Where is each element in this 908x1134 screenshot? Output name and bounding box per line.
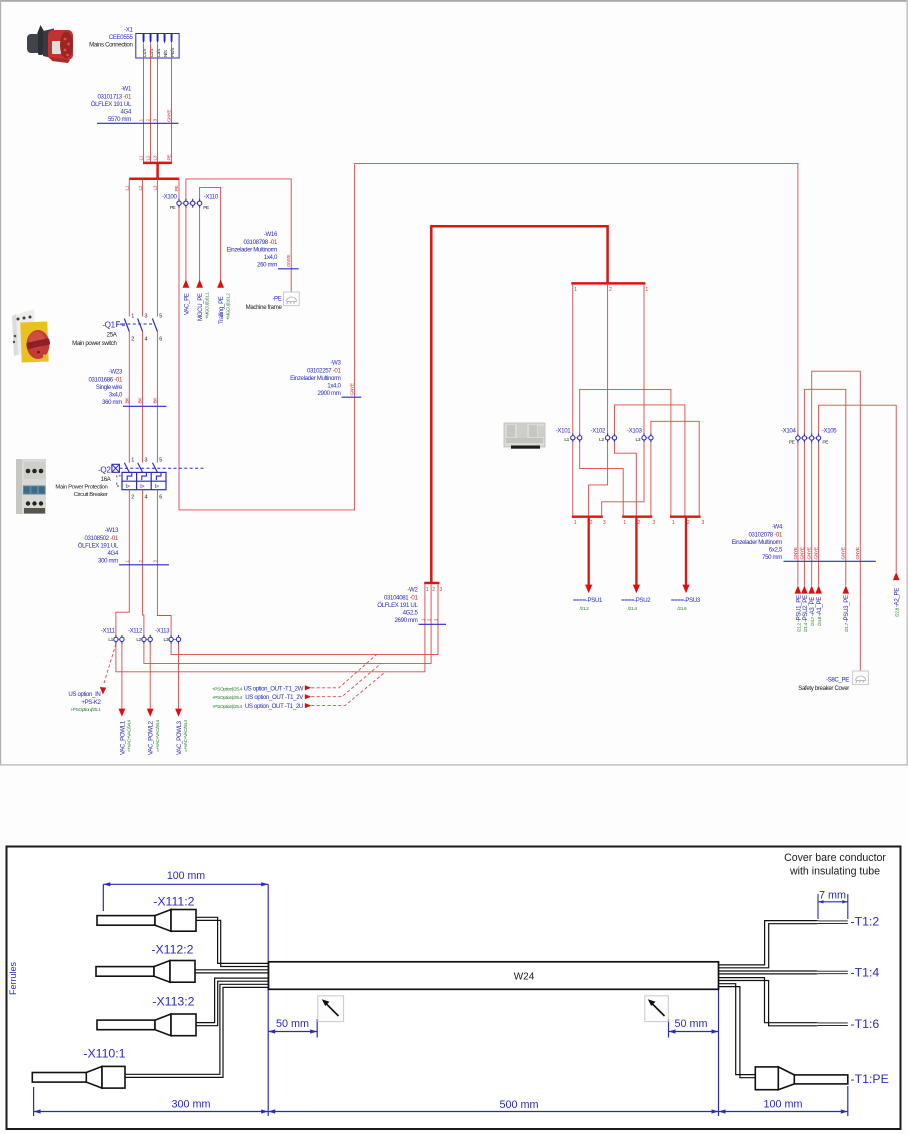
- svg-text:1: 1: [131, 314, 134, 320]
- svg-text:6x2,5: 6x2,5: [769, 547, 783, 554]
- svg-text:+PSOption|/25.1: +PSOption|/25.1: [70, 707, 101, 713]
- svg-text:+PSOption|/25.4: +PSOption|/25.4: [212, 704, 243, 710]
- extension line at cable left: [267, 884, 269, 1116]
- svg-text:5570 mm: 5570 mm: [108, 116, 131, 123]
- extension line at cable right: [718, 990, 720, 1117]
- svg-text:-X1: -X1: [124, 27, 133, 34]
- dimension 50 mm left: [268, 1019, 317, 1038]
- dimension 300 mm: [34, 1087, 269, 1116]
- arrow A3_PE: [808, 586, 816, 627]
- svg-text:/21.4: /21.4: [628, 606, 638, 612]
- svg-text:03104081 -01: 03104081 -01: [384, 595, 418, 602]
- svg-text:-T1:4: -T1:4: [851, 966, 880, 980]
- PSU1 pin numbers: [574, 520, 606, 526]
- cable W2 thick feed route: [431, 226, 607, 583]
- arrow to PSU1: [573, 517, 603, 612]
- dimension 100 mm right: [719, 1086, 848, 1116]
- svg-text:PE: PE: [166, 155, 172, 161]
- svg-text:4G4: 4G4: [108, 550, 119, 557]
- svg-text:3x4,0: 3x4,0: [109, 392, 123, 399]
- option OUT T1_2W dashed: [212, 655, 377, 693]
- wires Q1 to Q2: [129, 332, 157, 463]
- svg-text:+PSOption|/25.4: +PSOption|/25.4: [212, 686, 243, 692]
- PSU3 pin numbers: [672, 520, 705, 526]
- W2 pin numbers: [426, 587, 443, 593]
- wire X101 top to group3 pin1: [580, 389, 671, 516]
- svg-text:ÖLFLEX 191 UL: ÖLFLEX 191 UL: [91, 101, 132, 108]
- wire X101 right to group2 pin1: [580, 442, 624, 516]
- cable W13 label block: [78, 527, 169, 565]
- svg-text:50 mm: 50 mm: [276, 1018, 309, 1030]
- dimension 50 mm right: [669, 1019, 719, 1038]
- svg-text:US option_OUT -T1_2V: US option_OUT -T1_2V: [245, 694, 304, 701]
- bus drop wires: [573, 283, 644, 433]
- callout box right: [645, 996, 669, 1022]
- PSU2 pin numbers: [623, 520, 655, 526]
- dimension 100 mm top: [103, 884, 268, 911]
- svg-text:/21.6: /21.6: [677, 606, 687, 612]
- callout box left: [318, 996, 344, 1022]
- svg-text:500 mm: 500 mm: [499, 1099, 538, 1111]
- arrow VAC_POWL3: [175, 644, 188, 755]
- svg-text:Ferrules: Ferrules: [8, 961, 18, 995]
- arrow PSU1_PE: [795, 586, 803, 633]
- svg-text:=+VAC+VAC/94.4: =+VAC+VAC/94.4: [127, 720, 132, 752]
- svg-text:-X101: -X101: [556, 428, 572, 435]
- wire X113 to cable: [196, 978, 269, 1026]
- svg-text:-W1: -W1: [121, 86, 132, 93]
- svg-text:6: 6: [159, 337, 162, 343]
- svg-text:-X111: -X111: [101, 628, 116, 635]
- bottom drawing panel frame: [7, 847, 901, 1130]
- wire X110 to cable: [125, 984, 269, 1077]
- svg-text:03101686 -01: 03101686 -01: [88, 377, 122, 384]
- wire X111 to cable: [196, 917, 269, 966]
- cable W1 label block: [91, 86, 179, 161]
- junction bus bar 1: [143, 162, 172, 165]
- svg-text:50 mm: 50 mm: [675, 1018, 708, 1030]
- svg-text:====-PSU2: ====-PSU2: [621, 597, 651, 604]
- option IN dashed arrow: [68, 644, 116, 713]
- svg-text:03108798 -01: 03108798 -01: [243, 239, 277, 246]
- svg-text:Trailing_PE: Trailing_PE: [218, 296, 225, 324]
- svg-text:25A: 25A: [107, 332, 118, 339]
- svg-text:100 mm: 100 mm: [763, 1099, 802, 1111]
- svg-text:300 mm: 300 mm: [171, 1099, 210, 1111]
- svg-text:GNYE: GNYE: [799, 547, 805, 559]
- svg-text:GNYE: GNYE: [807, 547, 813, 559]
- page right edge: [906, 0, 908, 765]
- arrow VAC_POWL1: [119, 644, 132, 755]
- photo: distribution terminal blocks: [504, 423, 545, 449]
- option OUT T1_2U dashed: [212, 672, 386, 710]
- svg-text:-X113:2: -X113:2: [152, 995, 194, 1009]
- arrow Trailing_PE: [217, 280, 230, 325]
- terminal X103: [627, 428, 653, 443]
- svg-text:-W13: -W13: [105, 527, 119, 534]
- svg-text:03102078 -01: 03102078 -01: [748, 532, 782, 539]
- svg-text:3: 3: [145, 314, 148, 320]
- bare conductor T1:4: [817, 971, 848, 974]
- svg-text:-S8C_PE: -S8C_PE: [826, 677, 849, 684]
- cable W16 wire to machine frame: [186, 179, 291, 292]
- wire X102 left to group1 pin2: [589, 442, 608, 516]
- svg-text:-X110:1: -X110:1: [83, 1047, 125, 1061]
- wire MGCU PE: [199, 208, 201, 288]
- ferrule X113:2: [97, 1014, 196, 1036]
- svg-text:-PE: -PE: [272, 296, 281, 303]
- PE down wires: [798, 443, 819, 586]
- svg-text:2: 2: [131, 495, 134, 501]
- rail X112 to W2 pin2: [144, 584, 431, 663]
- wire X102 top to group3 pin2: [615, 405, 685, 517]
- svg-text:4G4: 4G4: [121, 109, 132, 116]
- bridge X104 to PSU3_PE: [804, 389, 845, 585]
- bridge X105 to A2_PE: [819, 405, 897, 572]
- svg-text:/21.7 -PSU3_PE: /21.7 -PSU3_PE: [843, 595, 850, 632]
- svg-text:L3: L3: [153, 155, 159, 160]
- terminal X101: [556, 428, 582, 443]
- W2 conductor marks: [420, 618, 438, 621]
- ferrule X112:2: [96, 961, 195, 983]
- arrow PSU2_PE: [801, 586, 809, 633]
- svg-text:7 mm: 7 mm: [819, 890, 846, 902]
- svg-text:-T1:2: -T1:2: [851, 915, 880, 929]
- photo: Q2 circuit breaker: [16, 459, 46, 514]
- svg-text:/24.8 -A1_PE: /24.8 -A1_PE: [816, 597, 823, 626]
- svg-text:-T1:6: -T1:6: [851, 1017, 880, 1031]
- svg-text:300 mm: 300 mm: [98, 558, 118, 565]
- svg-text:L1: L1: [564, 437, 569, 443]
- arrow VAC_POWL2: [147, 644, 160, 755]
- svg-text:4: 4: [145, 495, 148, 501]
- svg-text:03108502 -01: 03108502 -01: [84, 535, 118, 542]
- terminal row X104 / X105: [781, 428, 837, 446]
- bridge X104 to S8C ground: [812, 371, 861, 672]
- wire W3 PE long route: [179, 164, 798, 510]
- wire X103 top to group3 pin3: [651, 421, 699, 516]
- svg-text:Einzelader Multinorm: Einzelader Multinorm: [227, 247, 278, 254]
- svg-text:PE: PE: [822, 439, 828, 445]
- svg-text:4: 4: [145, 337, 148, 343]
- schematic panel bottom border: [0, 764, 908, 765]
- svg-text:GNYE: GNYE: [166, 110, 172, 122]
- svg-text:2900 mm: 2900 mm: [317, 390, 340, 397]
- ground S8C_PE safety breaker cover: [798, 671, 868, 692]
- svg-text:====-PSU3: ====-PSU3: [671, 597, 701, 604]
- svg-text:US option_IN: US option_IN: [68, 691, 100, 698]
- wire X110 trailing PE route: [200, 187, 221, 287]
- svg-text:-W4: -W4: [772, 524, 783, 531]
- wire PE drop to X100: [178, 179, 180, 199]
- svg-text:3: 3: [145, 458, 148, 464]
- svg-text:N/S: N/S: [163, 50, 168, 57]
- terminal X113: [155, 628, 181, 644]
- svg-text:I>: I>: [155, 484, 159, 490]
- option OUT T1_2V dashed: [212, 663, 381, 701]
- wire X103 left to group1 pin3: [602, 442, 644, 516]
- svg-text:+PS-K2: +PS-K2: [81, 699, 101, 706]
- svg-text:-Q1: -Q1: [102, 321, 115, 330]
- svg-text:L3/S: L3/S: [156, 49, 161, 57]
- ferrule X111:2: [97, 910, 196, 932]
- svg-text:US option_OUT -T1_2W: US option_OUT -T1_2W: [244, 685, 304, 692]
- wire X112 to cable: [195, 970, 269, 973]
- svg-text:-X110: -X110: [204, 194, 219, 201]
- wire to T1:6: [719, 978, 817, 1026]
- cable W16 label block: [227, 231, 299, 269]
- svg-text:VAC_PE: VAC_PE: [183, 293, 190, 315]
- arrow PSU3_PE: [843, 586, 851, 633]
- page left edge: [0, 0, 1, 765]
- svg-text:-X102: -X102: [591, 428, 607, 435]
- svg-text:GNYE: GNYE: [841, 547, 847, 559]
- svg-text:-X103: -X103: [627, 428, 643, 435]
- svg-text:I>: I>: [140, 484, 144, 490]
- svg-text:2: 2: [131, 337, 134, 343]
- svg-text:PE: PE: [203, 205, 209, 211]
- svg-text:750 mm: 750 mm: [762, 554, 782, 561]
- svg-text:-X112: -X112: [128, 628, 143, 635]
- svg-text:-X112:2: -X112:2: [151, 943, 193, 957]
- svg-text:16A: 16A: [101, 476, 112, 483]
- svg-text:Safety breaker Cover: Safety breaker Cover: [798, 685, 849, 692]
- svg-text:-X113: -X113: [155, 628, 170, 635]
- svg-text:100 mm: 100 mm: [167, 870, 205, 882]
- svg-text:-W2: -W2: [407, 587, 418, 594]
- svg-text:GNYE: GNYE: [855, 547, 861, 559]
- wire X103 right to group2 pin3: [650, 442, 652, 516]
- svg-text:L2: L2: [146, 155, 152, 160]
- svg-text:/21.2: /21.2: [580, 606, 590, 612]
- svg-text:GNYE: GNYE: [350, 383, 356, 395]
- bus bar 2 phase marks: [125, 185, 181, 191]
- svg-text:====-PSU1: ====-PSU1: [573, 597, 603, 604]
- svg-text:03101713 -01: 03101713 -01: [97, 94, 131, 101]
- svg-text:03102257 -01: 03102257 -01: [307, 368, 341, 375]
- svg-text:ÖLFLEX 191 UL: ÖLFLEX 191 UL: [377, 602, 418, 609]
- svg-text:Main Power Protection: Main Power Protection: [55, 485, 107, 491]
- W2 pin bar: [424, 582, 439, 585]
- svg-text:CEE0555: CEE0555: [109, 34, 134, 41]
- rail X111 to W2 pin1: [116, 584, 425, 671]
- PSU1 pin bar: [572, 516, 603, 518]
- svg-text:-W23: -W23: [109, 369, 123, 376]
- svg-text:/21.4 -PSU2_PE: /21.4 -PSU2_PE: [802, 595, 809, 632]
- svg-text:5: 5: [159, 314, 162, 320]
- PSU2 pin bar: [622, 516, 652, 518]
- arrow A1_PE: [815, 586, 823, 627]
- svg-text:-T1:PE: -T1:PE: [851, 1072, 889, 1086]
- svg-text:-X100: -X100: [162, 194, 178, 201]
- bare conductor T1:6: [817, 1023, 848, 1026]
- svg-text:1x4,0: 1x4,0: [264, 254, 278, 261]
- svg-text:L2: L2: [599, 437, 604, 443]
- svg-text:I>: I>: [126, 484, 130, 490]
- svg-text:260 mm: 260 mm: [257, 262, 277, 269]
- svg-text:1: 1: [131, 458, 134, 464]
- wire X101 pin1 down: [572, 442, 574, 516]
- svg-text:1x4,0: 1x4,0: [327, 383, 341, 390]
- svg-text:L3: L3: [164, 637, 169, 643]
- junction bus bar 2: [129, 178, 179, 181]
- svg-text:Single wire: Single wire: [96, 384, 123, 391]
- svg-text:VAC_POWL2: VAC_POWL2: [148, 720, 155, 755]
- svg-text:/22.8 -A2_PE: /22.8 -A2_PE: [894, 588, 901, 617]
- breaker Q2 symbol: [55, 458, 205, 501]
- connector X1 CEE0555: [89, 27, 179, 59]
- ferrule X110:1: [32, 1066, 125, 1088]
- wire to T1:4: [719, 971, 817, 974]
- svg-text:L2: L2: [136, 637, 141, 643]
- svg-text:W24: W24: [514, 972, 535, 983]
- svg-text:L1: L1: [139, 155, 145, 160]
- svg-text:Cover bare conductor: Cover bare conductor: [784, 852, 886, 864]
- svg-text:ÖLFLEX 191 UL: ÖLFLEX 191 UL: [78, 543, 119, 550]
- svg-text:VAC_POWL1: VAC_POWL1: [119, 720, 126, 755]
- PSU feeder bus bar: [571, 282, 645, 285]
- svg-text:GNYE: GNYE: [793, 547, 799, 559]
- cable W1 wires L1 L2 L3 PE: [144, 44, 172, 162]
- svg-text:Machine frame: Machine frame: [246, 304, 283, 311]
- arrow A2_PE: [893, 572, 901, 617]
- bus drop conductor labels: [574, 287, 648, 293]
- svg-text:-X104: -X104: [781, 428, 797, 435]
- bare conductor T1:2: [817, 921, 848, 924]
- svg-text:360 mm: 360 mm: [102, 399, 122, 406]
- terminal X111: [101, 628, 124, 644]
- wires bus to Q1: [129, 179, 157, 317]
- photo: Q1 main switch: [12, 309, 50, 362]
- svg-text:5: 5: [159, 458, 162, 464]
- rail X113 to W2 pin3: [171, 584, 438, 654]
- terminal X112: [128, 628, 152, 644]
- page top edge: [0, 0, 908, 2]
- photo: CEE mains plug: [27, 25, 73, 63]
- switch Q1 symbol: [72, 314, 162, 348]
- cable W24 body: [269, 962, 719, 990]
- svg-text:+PSOption|/25.4: +PSOption|/25.4: [212, 695, 243, 701]
- svg-text:PE: PE: [170, 205, 176, 211]
- svg-text:Circuit Breaker: Circuit Breaker: [74, 492, 108, 498]
- svg-text:-X105: -X105: [822, 428, 838, 435]
- svg-text:VAC_POWL3: VAC_POWL3: [176, 720, 183, 755]
- wire to T1:PE: [719, 984, 756, 1078]
- terminal X102: [591, 428, 617, 443]
- dimension 7 mm: [818, 894, 848, 919]
- svg-text:MGCU_PE: MGCU_PE: [197, 293, 204, 321]
- svg-text:GNYE: GNYE: [814, 547, 820, 559]
- svg-text:=+VAC+VAC/94.4: =+VAC+VAC/94.4: [155, 720, 160, 752]
- svg-text:2690 mm: 2690 mm: [394, 617, 417, 624]
- svg-text:Einzelader Multinorm: Einzelader Multinorm: [732, 539, 783, 546]
- svg-text:Einzelader Multinorm: Einzelader Multinorm: [290, 375, 341, 382]
- cable W3 label block: [290, 360, 361, 398]
- PSU3 pin bar: [670, 516, 701, 518]
- svg-text:L1/S: L1/S: [142, 49, 147, 57]
- svg-text:Main power switch: Main power switch: [72, 340, 116, 347]
- wire X102 right to group2 pin2: [615, 442, 637, 516]
- junction riser: [156, 163, 159, 179]
- svg-text:GNYE: GNYE: [286, 255, 292, 267]
- cable W23 label block: [88, 369, 166, 407]
- wire to T1:2: [719, 921, 817, 968]
- arrow MGCU_PE: [196, 280, 209, 322]
- svg-text:4G2,5: 4G2,5: [403, 610, 419, 617]
- arrow to PSU3: [671, 517, 701, 612]
- svg-text:L3: L3: [636, 437, 641, 443]
- svg-text:-X111:2: -X111:2: [153, 895, 194, 909]
- ground PE machine frame: [246, 292, 300, 311]
- svg-text:+MGCU|/161.2: +MGCU|/161.2: [225, 293, 230, 320]
- ferrule T1:PE: [755, 1067, 848, 1090]
- arrow VAC_PE: [183, 280, 191, 316]
- svg-text:Mains Connection: Mains Connection: [89, 42, 132, 49]
- svg-text:+MGCU|/161.1: +MGCU|/161.1: [204, 292, 209, 319]
- svg-text:US option_OUT -T1_2U: US option_OUT -T1_2U: [245, 703, 303, 710]
- cable W4 label block: [732, 524, 876, 562]
- wires Q2 to X111..X113: [116, 490, 171, 635]
- svg-text:with insulating tube: with insulating tube: [789, 866, 880, 878]
- svg-text:L1: L1: [108, 637, 113, 643]
- svg-text:PE/S: PE/S: [170, 48, 175, 57]
- terminal row X100 / X110: [162, 194, 219, 211]
- arrow to PSU2: [621, 517, 651, 612]
- cable W2 label block: [377, 587, 446, 625]
- dimension 500 mm: [268, 1099, 718, 1114]
- svg-text:L2/S: L2/S: [149, 49, 154, 57]
- svg-text:-W3: -W3: [330, 360, 341, 367]
- svg-text:6: 6: [159, 495, 162, 501]
- svg-text:PE: PE: [789, 439, 795, 445]
- svg-text:=+VAC+VAC/94.4: =+VAC+VAC/94.4: [183, 720, 188, 752]
- svg-text:-Q2: -Q2: [98, 466, 111, 475]
- svg-text:-W16: -W16: [264, 231, 278, 238]
